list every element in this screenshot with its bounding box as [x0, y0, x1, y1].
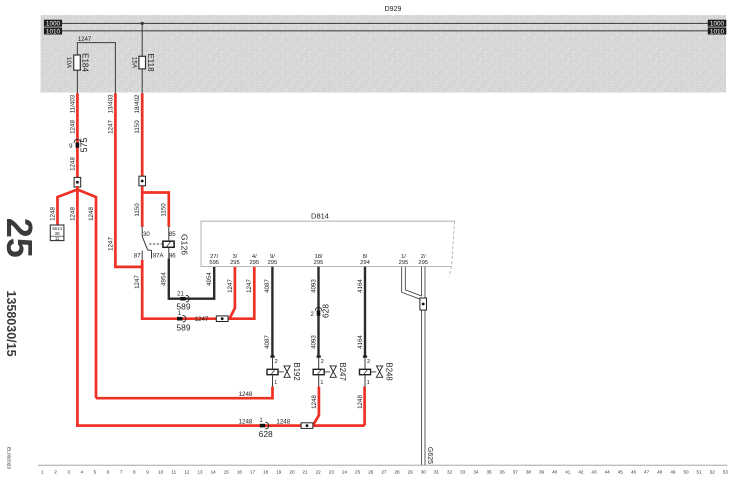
svg-text:52: 52 — [710, 470, 716, 475]
svg-text:1248: 1248 — [69, 157, 76, 171]
svg-text:2: 2 — [274, 359, 277, 365]
svg-text:2: 2 — [367, 359, 370, 365]
svg-text:27/: 27/ — [210, 254, 218, 260]
svg-text:1000: 1000 — [710, 21, 725, 28]
svg-text:E184: E184 — [81, 53, 90, 72]
svg-text:25: 25 — [355, 470, 361, 475]
splice 2 on net 628 — [315, 307, 322, 310]
svg-text:3/: 3/ — [232, 254, 237, 260]
svg-text:2: 2 — [321, 359, 324, 365]
svg-text:589: 589 — [177, 323, 191, 333]
svg-text:21: 21 — [177, 292, 184, 298]
svg-text:628: 628 — [320, 304, 330, 318]
svg-text:9: 9 — [146, 470, 149, 475]
svg-text:41: 41 — [565, 470, 571, 475]
svg-text:1248: 1248 — [88, 207, 95, 221]
svg-text:48: 48 — [657, 470, 663, 475]
ground splice 575 pin 9 — [74, 139, 81, 142]
svg-text:26: 26 — [368, 470, 374, 475]
svg-text:294: 294 — [360, 260, 370, 266]
svg-text:85: 85 — [169, 232, 176, 238]
svg-text:E118: E118 — [146, 53, 155, 72]
relay G126 coil dashed link — [149, 243, 163, 245]
svg-text:295: 295 — [268, 260, 278, 266]
svg-text:595: 595 — [209, 260, 219, 266]
ruler baseline — [38, 464, 728, 466]
svg-text:23: 23 — [329, 470, 335, 475]
wire 4954 U-link — [169, 259, 214, 299]
svg-text:1150: 1150 — [134, 203, 141, 217]
svg-text:1150: 1150 — [161, 203, 168, 217]
bus bar 1000 — [62, 22, 709, 24]
net label box 1010 left — [44, 28, 62, 35]
svg-text:31: 31 — [434, 470, 440, 475]
svg-text:18: 18 — [263, 470, 269, 475]
connector on white wire — [420, 298, 427, 310]
wire 1150 branch to relay pin 85 — [142, 193, 169, 227]
svg-text:30: 30 — [143, 232, 150, 238]
relay G126 pin 87A — [148, 250, 152, 258]
connector on wire 1248 — [74, 177, 81, 187]
relay G126 pin 86 — [168, 247, 170, 260]
svg-text:1247: 1247 — [107, 237, 114, 251]
wire 1248 main vertical — [76, 93, 79, 190]
svg-text:4164: 4164 — [357, 279, 364, 293]
svg-text:D814: D814 — [311, 212, 329, 221]
branch to pin 3/295 — [230, 267, 235, 319]
svg-text:B247: B247 — [338, 362, 347, 380]
svg-text:87A: 87A — [153, 254, 164, 260]
net label box 1000 left — [44, 20, 62, 27]
svg-text:13/403: 13/403 — [107, 94, 114, 113]
connector on net 589 — [216, 316, 228, 322]
svg-text:1358030/15: 1358030/15 — [4, 290, 18, 356]
ruler numbers — [41, 470, 728, 475]
svg-text:10A: 10A — [65, 57, 72, 69]
svg-text:589: 589 — [177, 302, 191, 312]
svg-text:32: 32 — [447, 470, 453, 475]
fuse E118 — [139, 56, 146, 69]
connector on net 628 — [301, 423, 313, 429]
page reference box 5614 — [50, 225, 64, 241]
wire 4164 — [364, 267, 366, 357]
wire 1248 three-way split — [76, 186, 79, 426]
svg-text:51: 51 — [697, 470, 703, 475]
svg-text:1: 1 — [274, 380, 277, 386]
wire 1248 bottom horizontal net 628 — [77, 424, 364, 425]
svg-text:46: 46 — [631, 470, 637, 475]
svg-text:3: 3 — [67, 470, 70, 475]
svg-text:15: 15 — [224, 470, 230, 475]
svg-text:20: 20 — [289, 470, 295, 475]
svg-text:1248: 1248 — [239, 418, 253, 425]
svg-text:18/: 18/ — [314, 254, 322, 260]
relay G126 pin 87 — [141, 251, 143, 260]
svg-text:35: 35 — [486, 470, 492, 475]
svg-text:G625: G625 — [426, 447, 433, 464]
svg-text:39: 39 — [539, 470, 545, 475]
svg-text:4087: 4087 — [264, 335, 271, 349]
splice 1 on net 589 — [177, 317, 182, 321]
svg-text:19: 19 — [276, 470, 282, 475]
svg-text:1010: 1010 — [46, 28, 61, 35]
svg-text:16: 16 — [237, 470, 243, 475]
svg-text:1: 1 — [320, 380, 323, 386]
valve B247 — [317, 355, 321, 357]
svg-text:1247: 1247 — [195, 316, 209, 323]
relay G126 coil box — [163, 241, 174, 247]
wire 1150 vertical — [141, 93, 144, 227]
svg-text:25: 25 — [0, 218, 40, 258]
svg-text:295: 295 — [399, 260, 409, 266]
wire 1247 to relay pin 87 and down — [141, 260, 144, 319]
svg-text:4/: 4/ — [252, 254, 257, 260]
relay G126 pin 85 — [168, 227, 170, 242]
net label box 1010 right — [708, 28, 727, 35]
splice 1 on net 628 — [260, 424, 265, 428]
svg-text:1248: 1248 — [311, 395, 318, 409]
svg-text:1248: 1248 — [239, 391, 253, 398]
svg-text:1010: 1010 — [710, 28, 725, 35]
fuse E184 — [74, 55, 81, 70]
wire 1247 vertical — [115, 93, 142, 267]
wire 1248 from B248 — [363, 387, 366, 426]
relay G126 pin 30 — [141, 227, 143, 237]
svg-text:G126: G126 — [180, 234, 190, 255]
supply rail band — [41, 15, 727, 93]
svg-text:13: 13 — [197, 470, 203, 475]
svg-text:D929: D929 — [385, 6, 402, 13]
svg-text:30: 30 — [421, 470, 427, 475]
svg-text:18/402: 18/402 — [134, 94, 141, 113]
svg-text:9/: 9/ — [270, 254, 275, 260]
svg-text:B248: B248 — [384, 362, 393, 380]
svg-text:295: 295 — [314, 260, 324, 266]
svg-text:86: 86 — [169, 254, 176, 260]
bus bar 1010 — [62, 30, 709, 32]
wire below fuse E184 — [76, 70, 78, 94]
splice 21 on net 589 — [180, 297, 185, 301]
svg-text:6: 6 — [107, 470, 110, 475]
svg-text:295: 295 — [249, 260, 259, 266]
svg-text:1: 1 — [41, 470, 44, 475]
svg-text:44: 44 — [605, 470, 611, 475]
svg-text:10: 10 — [158, 470, 164, 475]
svg-text:B192: B192 — [292, 362, 301, 380]
svg-text:1247: 1247 — [227, 279, 234, 293]
valve B248 — [363, 355, 367, 357]
svg-text:47: 47 — [644, 470, 650, 475]
tap junction on bus 1000 — [141, 22, 144, 25]
svg-text:2/: 2/ — [421, 254, 426, 260]
svg-text:1: 1 — [367, 380, 370, 386]
svg-text:17: 17 — [250, 470, 256, 475]
svg-text:4954: 4954 — [161, 272, 168, 286]
svg-text:4087: 4087 — [264, 279, 271, 293]
svg-text:27: 27 — [381, 470, 387, 475]
svg-text:42: 42 — [578, 470, 584, 475]
svg-text:4: 4 — [81, 470, 84, 475]
svg-text:50: 50 — [683, 470, 689, 475]
svg-text:4093: 4093 — [310, 335, 317, 349]
svg-text:1150: 1150 — [134, 120, 141, 134]
svg-text:29: 29 — [408, 470, 414, 475]
svg-text:87: 87 — [134, 254, 141, 260]
svg-text:575: 575 — [79, 138, 89, 153]
svg-text:1248: 1248 — [69, 120, 76, 134]
svg-text:2: 2 — [54, 470, 57, 475]
svg-text:1/: 1/ — [401, 254, 406, 260]
svg-text:38: 38 — [526, 470, 532, 475]
svg-text:11: 11 — [171, 470, 176, 475]
svg-text:4164: 4164 — [357, 335, 364, 349]
svg-text:1247: 1247 — [107, 120, 114, 134]
svg-text:295: 295 — [418, 260, 428, 266]
svg-text:36: 36 — [500, 470, 506, 475]
svg-text:37: 37 — [513, 470, 519, 475]
ECU D814 box — [201, 221, 455, 266]
svg-text:1248: 1248 — [49, 207, 56, 221]
wire 4093 — [317, 267, 319, 357]
wire 1248 from B247 — [313, 387, 319, 425]
svg-text:34: 34 — [473, 470, 479, 475]
svg-text:8/: 8/ — [363, 254, 368, 260]
svg-text:1248: 1248 — [357, 395, 364, 409]
svg-text:4093: 4093 — [310, 279, 317, 293]
svg-text:1248: 1248 — [69, 207, 76, 221]
svg-text:1247: 1247 — [246, 279, 253, 293]
wire 4087 — [271, 267, 273, 357]
svg-text:24: 24 — [342, 470, 348, 475]
svg-text:43: 43 — [592, 470, 598, 475]
svg-text:53: 53 — [723, 470, 729, 475]
svg-text:15A: 15A — [131, 57, 138, 69]
svg-text:1248: 1248 — [276, 418, 290, 425]
valve B192 — [270, 355, 274, 357]
svg-text:33: 33 — [460, 470, 466, 475]
svg-text:28: 28 — [394, 470, 400, 475]
white wire from pins 1,2 to ground G625 — [404, 267, 424, 299]
connector on wire 1150 — [139, 176, 146, 186]
wire below fuse E118 — [141, 69, 143, 94]
net label box 1000 right — [708, 20, 727, 27]
svg-text:40: 40 — [552, 470, 558, 475]
svg-text:11/403: 11/403 — [69, 94, 76, 113]
svg-text:14: 14 — [211, 470, 217, 475]
svg-text:49: 49 — [670, 470, 676, 475]
svg-text:12: 12 — [184, 470, 190, 475]
svg-text:22: 22 — [316, 470, 322, 475]
relay G126 switch arm — [142, 237, 148, 251]
svg-text:1000: 1000 — [46, 21, 61, 28]
svg-text:1247: 1247 — [134, 275, 141, 289]
svg-text:628: 628 — [259, 429, 273, 439]
wire 1247 net 589 horizontal — [142, 267, 254, 319]
wire 1248 from B192 to line1 — [96, 387, 273, 399]
svg-text:5: 5 — [94, 470, 97, 475]
svg-text:1247: 1247 — [78, 37, 92, 43]
svg-text:11: 11 — [55, 236, 60, 241]
svg-text:7: 7 — [120, 470, 123, 475]
svg-text:4954: 4954 — [206, 272, 213, 286]
svg-text:45: 45 — [618, 470, 624, 475]
wire 1247 jumper above fuse E184 — [77, 43, 115, 94]
svg-text:21: 21 — [303, 470, 309, 475]
svg-text:295: 295 — [230, 260, 240, 266]
wire bus to fuse E118 — [141, 23, 143, 56]
svg-text:8: 8 — [133, 470, 136, 475]
